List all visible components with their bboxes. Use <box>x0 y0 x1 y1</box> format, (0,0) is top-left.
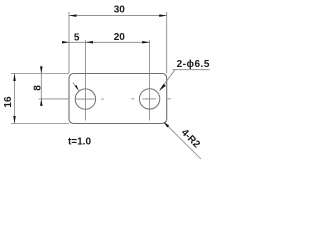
arrowhead on left hole edge <box>75 85 79 91</box>
centerline dash outside right edge <box>168 98 172 100</box>
arrow at left-hole centerline (shared by 5 and 20) <box>86 41 94 44</box>
svg-text:16: 16 <box>3 96 14 108</box>
plate outline <box>69 74 167 124</box>
centerline horizontal left hole <box>76 98 95 100</box>
dimension line 16 <box>14 74 16 124</box>
centerline vertical right hole / extension for dim 20 <box>149 40 151 121</box>
svg-text:2-ϕ6.5: 2-ϕ6.5 <box>177 59 210 70</box>
centerline vertical left hole / extension for dim 5-20 <box>84 40 86 121</box>
arrow outside-bottom of dim 8 (pointing up at centerline) <box>40 99 43 106</box>
extension line bottom edge extended left (for dim 16) <box>11 123 69 125</box>
svg-text:20: 20 <box>114 32 126 43</box>
extension line top edge extended left (for dims 16 and 8) <box>11 73 69 75</box>
extension line left edge (top, for dims 30 and 5) <box>68 12 70 74</box>
arrow bottom of dim 16 <box>13 116 16 124</box>
centerline dash right of left hole <box>101 98 104 100</box>
hole right circle <box>139 89 159 109</box>
arrow right of dim 20 <box>142 41 150 44</box>
arrow left of dim 30 <box>69 14 77 17</box>
svg-text:4-R2: 4-R2 <box>179 127 202 150</box>
arrow right of dim 30 <box>159 14 167 17</box>
arrowhead on bottom-right corner <box>163 122 169 128</box>
dimension line 5 and 20 <box>62 41 150 43</box>
hole left circle <box>75 89 95 109</box>
svg-text:8: 8 <box>32 85 43 91</box>
arrow top of dim 16 <box>13 74 16 82</box>
arrow outside-top of dim 8 (pointing down at top edge) <box>40 67 43 74</box>
dimension line 8 <box>40 66 42 105</box>
svg-text:t=1.0: t=1.0 <box>68 136 92 147</box>
centerline dash left of right hole <box>131 98 134 100</box>
leader to left hole (short diagonal with arrow) <box>73 83 78 90</box>
extension line right edge (top, for dim 30) <box>166 12 168 74</box>
svg-text:5: 5 <box>74 32 80 43</box>
leader line 4-R2 to bottom-right corner <box>164 123 201 160</box>
extension line hole centerline extended left (for dim 8) <box>39 98 69 100</box>
dimension line 30 <box>69 15 167 17</box>
arrowhead on right hole edge <box>159 84 166 91</box>
leader underline for 2-phi6.5 <box>173 69 210 71</box>
centerline horizontal right hole <box>142 98 156 100</box>
leader diagonal to right hole <box>160 70 175 90</box>
arrow outside-left of dim 5 <box>62 41 69 44</box>
svg-text:30: 30 <box>114 4 126 15</box>
